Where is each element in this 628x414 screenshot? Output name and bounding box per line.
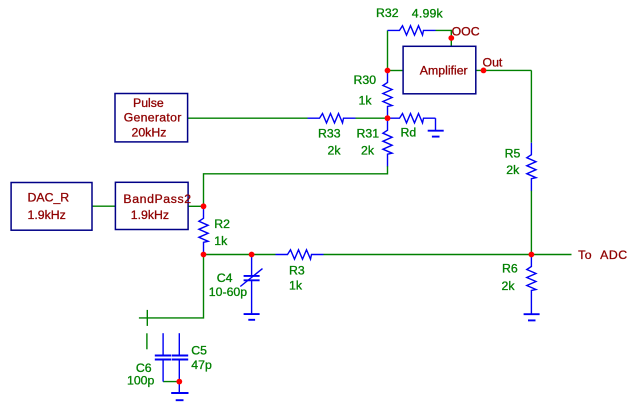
- svg-text:2k: 2k: [328, 144, 342, 158]
- svg-text:To ADC: To ADC: [578, 248, 628, 262]
- svg-text:4.99k: 4.99k: [412, 6, 444, 20]
- svg-text:R6: R6: [502, 262, 518, 276]
- svg-text:Generator: Generator: [124, 111, 182, 125]
- svg-text:OOC: OOC: [452, 25, 480, 39]
- svg-text:Pulse: Pulse: [133, 96, 164, 110]
- svg-text:R30: R30: [354, 73, 377, 87]
- svg-text:R5: R5: [505, 147, 521, 161]
- svg-text:DAC_R: DAC_R: [28, 190, 70, 204]
- svg-text:20kHz: 20kHz: [132, 125, 167, 139]
- svg-text:BandPass2: BandPass2: [123, 192, 191, 206]
- svg-text:R33: R33: [318, 127, 341, 141]
- svg-text:R3: R3: [289, 264, 305, 278]
- svg-text:1.9kHz: 1.9kHz: [131, 208, 169, 222]
- svg-text:1.9kHz: 1.9kHz: [28, 208, 66, 222]
- svg-text:C4: C4: [217, 271, 233, 285]
- svg-text:C5: C5: [191, 344, 207, 358]
- svg-text:1k: 1k: [289, 279, 303, 293]
- svg-text:Amplifier: Amplifier: [420, 64, 468, 78]
- svg-text:1k: 1k: [214, 234, 228, 248]
- svg-text:100p: 100p: [127, 374, 155, 388]
- svg-text:R31: R31: [357, 127, 380, 141]
- svg-text:Rd: Rd: [401, 125, 417, 139]
- svg-text:2k: 2k: [506, 163, 520, 177]
- svg-text:2k: 2k: [361, 144, 375, 158]
- svg-text:R2: R2: [214, 217, 230, 231]
- svg-text:47p: 47p: [191, 358, 212, 372]
- svg-text:R32: R32: [376, 6, 399, 20]
- svg-text:Out: Out: [483, 56, 503, 70]
- svg-text:1k: 1k: [359, 94, 373, 108]
- svg-text:10-60p: 10-60p: [209, 285, 247, 299]
- svg-text:2k: 2k: [502, 279, 516, 293]
